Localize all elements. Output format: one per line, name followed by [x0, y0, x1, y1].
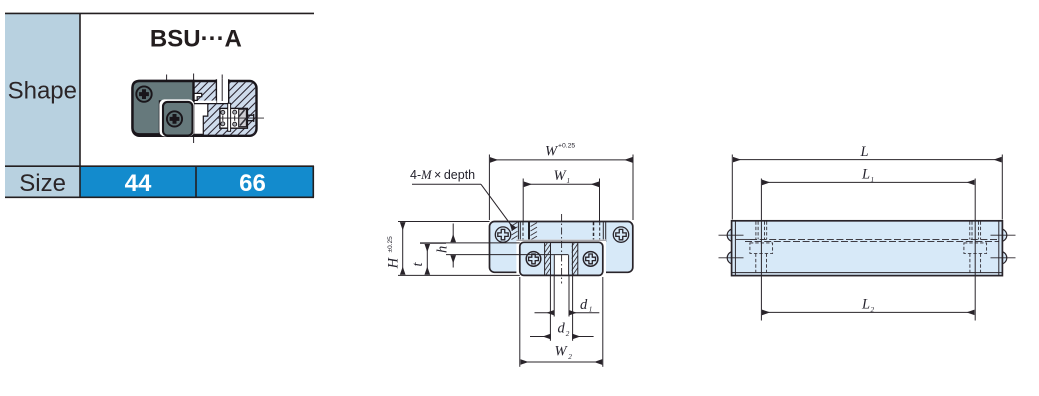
ball centerlines	[719, 235, 1016, 258]
M-hole thick edge	[528, 222, 530, 241]
shape header cell	[5, 14, 80, 167]
svg-text:t: t	[410, 262, 426, 267]
svg-text:W: W	[545, 144, 559, 160]
icon axis line	[218, 117, 265, 119]
W1 dimension	[523, 179, 599, 223]
L1 dimension	[761, 179, 975, 321]
svg-text:+0.25: +0.25	[558, 143, 575, 150]
svg-text:W: W	[554, 168, 568, 184]
rail body	[490, 222, 633, 273]
icon screw 2	[167, 111, 182, 126]
svg-text:4-M × depth: 4-M × depth	[410, 168, 475, 182]
icon centerline 1	[166, 75, 168, 103]
svg-text:1: 1	[589, 306, 593, 314]
white gap around block	[516, 239, 606, 278]
svg-text:1: 1	[871, 176, 875, 184]
end plates and bottom plate	[732, 221, 1003, 276]
svg-text:d: d	[580, 297, 588, 313]
size header cell	[5, 166, 80, 197]
svg-text:L: L	[861, 297, 870, 313]
H dimension	[398, 222, 520, 276]
svg-text:44: 44	[125, 170, 152, 197]
icon hatched housing	[133, 81, 257, 136]
W dimension	[489, 155, 633, 221]
svg-text:2: 2	[871, 306, 875, 314]
block screw right	[583, 252, 598, 267]
rail screw right	[613, 227, 628, 242]
counterbore right	[964, 221, 987, 272]
svg-text:h: h	[435, 246, 451, 253]
svg-text:BSU···A: BSU···A	[150, 25, 242, 52]
d1 dimension	[535, 312, 600, 314]
slide block	[520, 242, 603, 275]
hidden track lines	[736, 238, 750, 240]
W2 dimension	[521, 361, 602, 363]
icon bearing cavity	[220, 108, 248, 128]
center dash-dot line	[561, 214, 563, 284]
icon central bar	[228, 103, 231, 131]
icon white gap band	[193, 101, 217, 104]
icon bearing hatched bush	[239, 109, 247, 127]
lower extension lines	[520, 276, 603, 367]
rail body side	[732, 221, 1003, 276]
svg-text:2: 2	[566, 330, 570, 338]
svg-text:±0.25: ±0.25	[387, 236, 394, 253]
icon balls	[221, 110, 237, 126]
M-hole dashed left	[522, 222, 524, 241]
icon ball ticks	[223, 115, 235, 120]
svg-text:L: L	[860, 144, 869, 160]
svg-text:1: 1	[567, 177, 571, 185]
icon white L recess	[194, 104, 208, 135]
step line in block	[446, 254, 569, 256]
block hole edges	[545, 243, 578, 276]
icon dark block 1	[133, 81, 194, 134]
icon step notch	[194, 93, 202, 100]
icon shaft	[247, 114, 253, 122]
icon screw 1	[136, 86, 151, 101]
svg-text:2: 2	[568, 353, 572, 361]
block top ext line	[420, 242, 520, 244]
icon middle seam line	[194, 103, 229, 105]
icon white slot top	[216, 79, 228, 104]
h dimension	[452, 224, 454, 242]
svg-text:W: W	[555, 343, 569, 359]
svg-text:L: L	[861, 167, 870, 183]
counterbore left	[750, 221, 773, 272]
icon centerline 2	[193, 74, 195, 144]
table borders	[5, 13, 314, 197]
svg-text:H: H	[386, 256, 402, 269]
rail screw left	[495, 227, 510, 242]
svg-text:66: 66	[239, 170, 266, 197]
svg-text:Shape: Shape	[8, 78, 77, 105]
t dimension	[420, 242, 446, 244]
icon dark block 2	[159, 99, 194, 136]
M-hole dashed right	[593, 222, 595, 241]
block hole hatch	[545, 243, 578, 276]
L2 dimension	[762, 311, 974, 313]
svg-text:d: d	[558, 321, 566, 337]
d2 dimension	[530, 336, 594, 338]
bore void white	[554, 255, 568, 275]
icon centerline 3	[221, 75, 223, 102]
M-hole hatch left	[512, 222, 538, 240]
size 44 cell	[80, 166, 196, 197]
block screw left	[526, 252, 541, 267]
end balls left	[727, 229, 1007, 264]
size 66 cell	[196, 166, 314, 197]
svg-text:Size: Size	[19, 170, 66, 197]
rail slot edges	[518, 222, 605, 242]
L dimension	[732, 155, 1002, 220]
